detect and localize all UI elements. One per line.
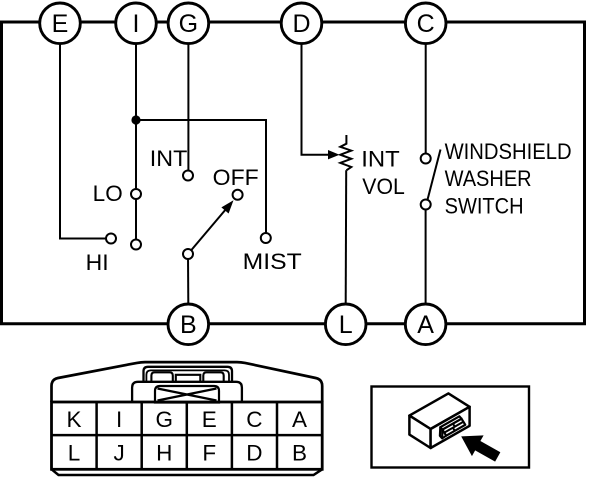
wire: C lead down to washer switch upper contact bbox=[425, 44, 427, 159]
svg-text:C: C bbox=[246, 407, 262, 432]
wire: junction to MIST contact bbox=[136, 120, 266, 238]
svg-text:I: I bbox=[116, 407, 122, 432]
svg-text:OFF: OFF bbox=[213, 165, 259, 190]
svg-text:VOL: VOL bbox=[362, 174, 405, 199]
svg-text:G: G bbox=[179, 10, 198, 38]
terminal C bbox=[405, 3, 446, 44]
wire: resistor bottom to L terminal bbox=[345, 170, 348, 303]
relay unit icon bbox=[409, 393, 469, 448]
svg-text:INT: INT bbox=[361, 147, 400, 172]
connector lower collar bbox=[132, 382, 242, 402]
svg-text:B: B bbox=[292, 440, 307, 465]
wire: switch body outline rectangle bbox=[2, 22, 585, 324]
svg-text:HI: HI bbox=[86, 250, 109, 275]
contact LO bbox=[131, 189, 141, 199]
terminal D bbox=[281, 3, 322, 44]
svg-text:A: A bbox=[417, 311, 434, 339]
pointer arrow bbox=[455, 426, 503, 467]
wire: I lead down to lower-left contact bbox=[135, 44, 137, 245]
svg-text:WINDSHIELD: WINDSHIELD bbox=[445, 139, 572, 164]
wire: D lead to wiper arrow of INT VOL bbox=[302, 44, 330, 155]
svg-text:SWITCH: SWITCH bbox=[445, 193, 524, 218]
contact INT bbox=[183, 171, 193, 181]
contact MIST bbox=[261, 233, 271, 243]
connector pin grid bbox=[52, 402, 323, 469]
terminal I bbox=[116, 3, 157, 44]
arrowhead into INT VOL resistor bbox=[328, 150, 340, 159]
svg-text:L: L bbox=[339, 311, 353, 339]
connector upper collar inner line bbox=[146, 370, 229, 381]
terminal B bbox=[168, 304, 209, 345]
relay connector block bbox=[440, 416, 465, 438]
svg-text:D: D bbox=[292, 10, 310, 38]
junction dot on I lead bbox=[131, 115, 140, 124]
terminal E bbox=[40, 3, 81, 44]
wire: B terminal up to wiper pivot bbox=[187, 254, 189, 303]
connector tab right bbox=[203, 372, 223, 382]
terminal A bbox=[405, 304, 446, 345]
connector tab left bbox=[151, 372, 172, 382]
washer switch arm bbox=[427, 150, 440, 201]
svg-text:B: B bbox=[180, 311, 197, 339]
svg-text:I: I bbox=[133, 10, 140, 38]
svg-text:E: E bbox=[202, 407, 217, 432]
svg-text:L: L bbox=[68, 440, 81, 465]
svg-text:WASHER: WASHER bbox=[445, 166, 532, 191]
wiper arm arrowhead bbox=[221, 200, 233, 213]
wiper arm toward OFF bbox=[188, 209, 227, 255]
svg-text:K: K bbox=[66, 407, 81, 432]
relay locator box bbox=[372, 387, 530, 468]
svg-text:F: F bbox=[202, 440, 216, 465]
wire: G lead down to INT contact bbox=[187, 44, 189, 176]
svg-text:D: D bbox=[246, 440, 262, 465]
connector housing outline bbox=[52, 362, 323, 402]
resistor INT VOL bbox=[340, 135, 351, 170]
svg-text:LO: LO bbox=[93, 181, 123, 206]
svg-text:G: G bbox=[155, 407, 173, 432]
connector keyed box with X bbox=[155, 386, 219, 403]
wiper pivot contact bbox=[183, 249, 193, 259]
terminal L bbox=[325, 304, 366, 345]
washer lower contact bbox=[421, 200, 431, 210]
svg-text:J: J bbox=[113, 440, 124, 465]
connector upper collar bbox=[144, 367, 233, 382]
connector bottom flange bbox=[52, 469, 323, 475]
svg-text:H: H bbox=[156, 440, 172, 465]
svg-text:A: A bbox=[292, 407, 307, 432]
contact HI bbox=[106, 234, 116, 244]
contact OFF bbox=[233, 190, 243, 200]
svg-text:C: C bbox=[417, 10, 435, 38]
wire: washer switch lower contact to A terminal bbox=[425, 205, 427, 304]
connector tab center bbox=[176, 375, 201, 382]
wire: E lead down and right to HI contact bbox=[60, 44, 111, 239]
contact lower on I lead bbox=[131, 240, 141, 250]
svg-text:MIST: MIST bbox=[243, 249, 302, 274]
washer upper contact bbox=[421, 154, 431, 164]
svg-text:INT: INT bbox=[150, 146, 188, 171]
svg-text:E: E bbox=[52, 10, 69, 38]
terminal G bbox=[168, 3, 209, 44]
